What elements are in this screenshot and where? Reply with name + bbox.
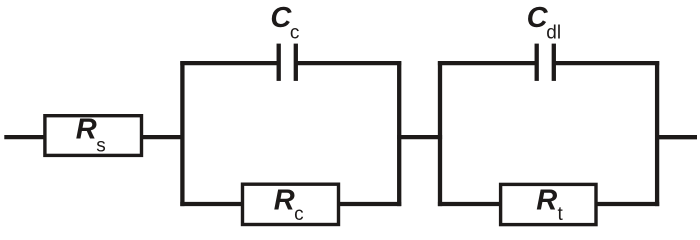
resistor R1 (Rs) body [45,116,142,156]
resistor R3 (Rt) body [501,184,596,224]
svg-text:t: t [558,204,564,225]
node B: right vertical rail of first parallel block [397,61,401,206]
capacitor C2 (Cdl) left plate [535,44,539,81]
wire: Rs to node A [141,135,184,139]
wire: right output lead [655,135,697,139]
capacitor C1 label Cc [270,2,299,43]
svg-text:c: c [290,22,300,43]
wire: left input lead [4,135,46,139]
svg-text:C: C [527,2,549,34]
node A: left vertical rail of first parallel block [180,61,184,206]
capacitor C2 label Cdl [527,2,561,43]
resistor R2 (Rc) body [243,184,339,224]
svg-text:R: R [536,184,557,216]
resistor R1 label Rs [76,113,106,156]
wire: top branch left segment to Cdl [438,61,536,65]
capacitor C1 (Cc) left plate [277,44,281,81]
wire: bottom branch right segment from Rc [338,202,402,206]
resistor R3 label Rt [536,184,563,225]
wire: bottom branch left segment to Rc [180,202,243,206]
resistor R2 label Rc [274,184,304,225]
svg-text:s: s [96,136,106,157]
wire: bottom branch left segment to Rt [438,202,502,206]
node D: right vertical rail of second parallel block [655,61,659,206]
capacitor C2 (Cdl) right plate [552,44,556,81]
wire: top branch right segment from Cc [297,61,401,65]
svg-text:dl: dl [546,22,561,43]
wire: top branch right segment from Cdl [555,61,659,65]
svg-text:c: c [294,204,304,225]
wire: top branch left segment to Cc [180,61,277,65]
node C: left vertical rail of second parallel block [438,61,442,206]
capacitor C1 (Cc) right plate [294,44,298,81]
svg-text:R: R [274,184,295,216]
wire: bottom branch right segment from Rt [596,202,660,206]
wire: node B to node C between blocks [397,135,442,139]
svg-text:R: R [76,113,97,145]
